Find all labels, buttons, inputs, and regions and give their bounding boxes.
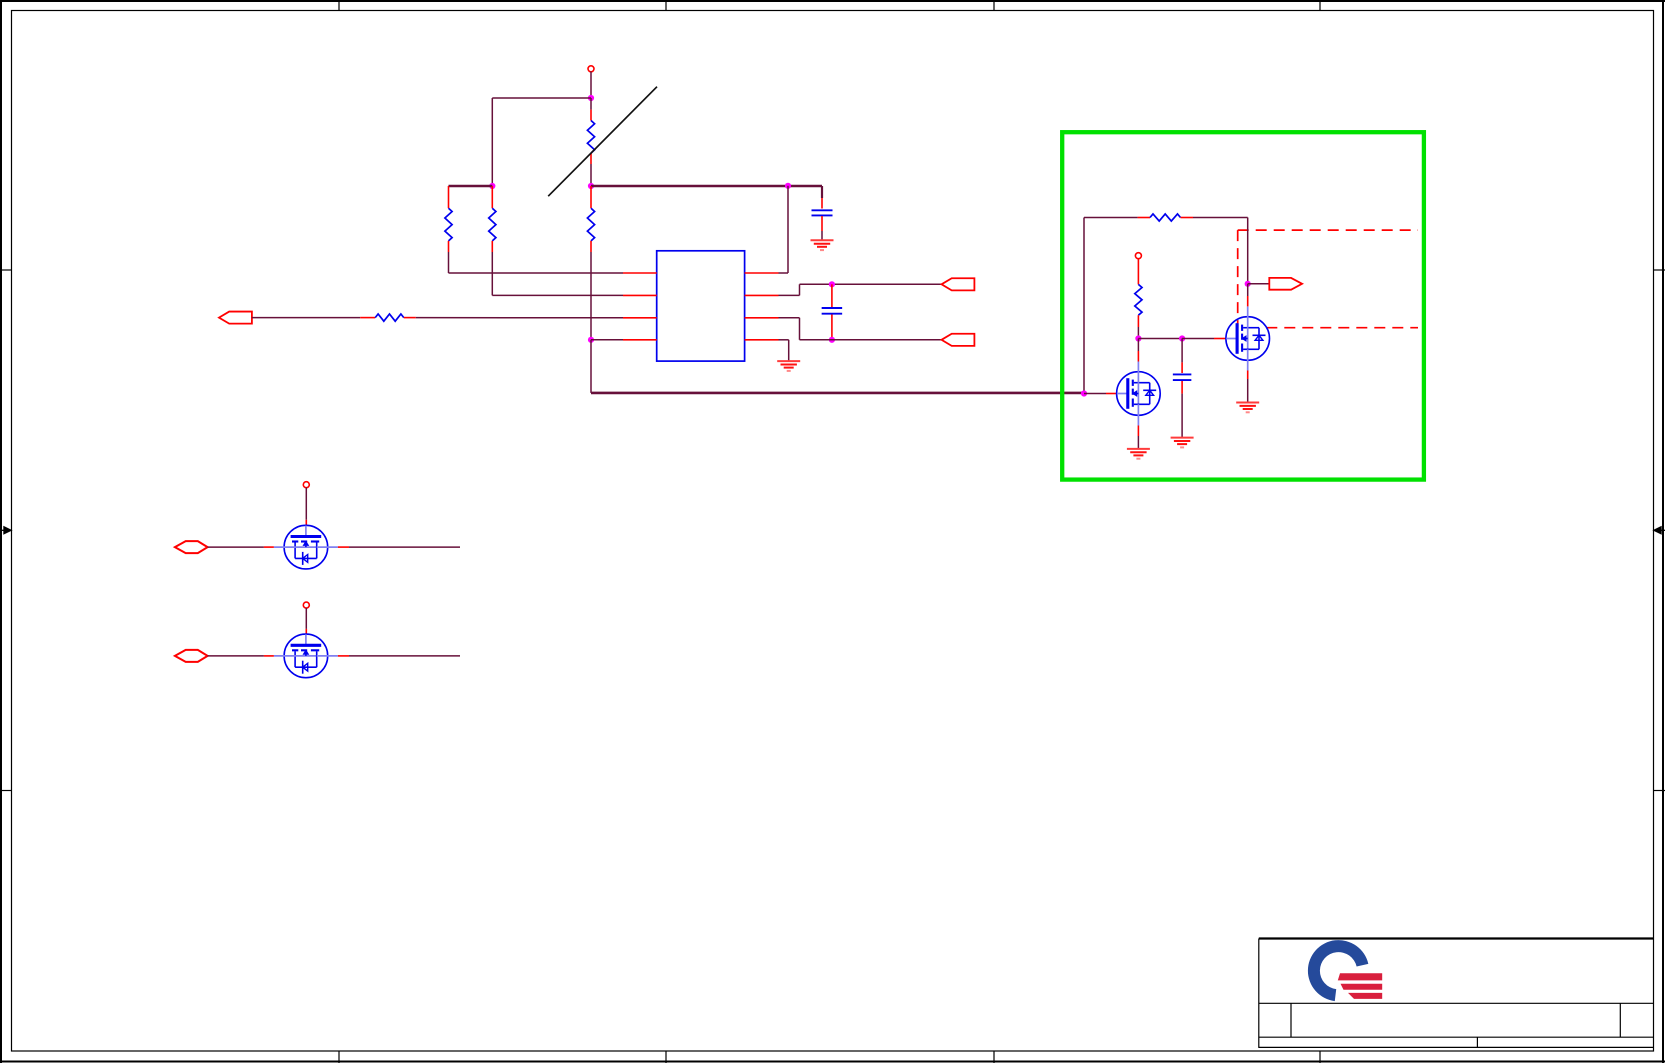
wire	[1193, 217, 1248, 219]
U1 pin 3 left	[623, 317, 657, 319]
wire	[821, 186, 823, 198]
port P3 (output, right of U1)	[942, 334, 975, 346]
U1 pin 1 left	[623, 272, 657, 274]
wire	[590, 252, 592, 340]
wire	[1181, 394, 1183, 438]
thermistor RT1 diagonal stroke	[548, 87, 657, 197]
wire	[208, 546, 264, 548]
U1 pin 6 right	[745, 317, 779, 319]
resistor R7	[1137, 259, 1139, 285]
wire	[779, 339, 789, 341]
wire	[1182, 338, 1214, 340]
wire	[1083, 218, 1085, 394]
U1 pin 8 right	[745, 272, 779, 274]
junction D	[588, 337, 594, 343]
ground	[1171, 437, 1194, 439]
ground	[1236, 402, 1259, 404]
wire	[787, 186, 789, 273]
port P2 (output, right of U1)	[942, 278, 975, 290]
wire	[305, 487, 307, 519]
transistor Q2 (NMOS)	[1226, 307, 1270, 371]
junction A	[588, 95, 594, 101]
junction J	[1135, 335, 1141, 341]
wire	[1247, 218, 1249, 284]
port P5 (bidirectional hexagon)	[175, 541, 208, 553]
wire Q2 source to ground	[1247, 371, 1249, 380]
wire	[448, 252, 450, 273]
wire	[338, 546, 349, 548]
highlight box (green)	[1062, 132, 1424, 479]
wire	[779, 294, 800, 296]
junction I	[1245, 281, 1251, 287]
junction G	[829, 337, 835, 343]
capacitor C2	[1181, 339, 1183, 363]
wire	[1248, 283, 1270, 285]
dashed annotation line vertical	[1237, 230, 1239, 328]
resistor R6	[1138, 217, 1150, 219]
wire	[448, 186, 450, 208]
wire Q1 source to ground	[1137, 426, 1139, 437]
resistor R3	[360, 317, 375, 319]
ground	[1127, 448, 1150, 450]
wire Q1 gate	[1084, 393, 1106, 395]
U1 pin 5 right	[745, 339, 779, 341]
capacitor C1	[821, 198, 823, 209]
junction K	[1179, 335, 1185, 341]
port P1 (input, left)	[219, 312, 252, 324]
ground	[811, 239, 834, 241]
transistor Q3 (NMOS, gate up)	[274, 525, 338, 569]
wire	[264, 655, 274, 657]
wire	[779, 317, 800, 319]
wire (bold)	[591, 185, 822, 188]
wire	[208, 655, 264, 657]
bus wire (bold) to gate of Q1	[590, 340, 592, 393]
wire	[264, 546, 274, 548]
wire Q1 drain	[1137, 339, 1139, 352]
ground	[777, 360, 800, 362]
wire	[1137, 327, 1139, 339]
junction B	[489, 183, 495, 189]
wire	[449, 185, 493, 188]
wire	[349, 655, 460, 657]
wire	[252, 317, 360, 319]
port P4 (output, points right)	[1269, 278, 1302, 290]
wire	[491, 98, 493, 186]
resistor R2	[491, 186, 493, 208]
IC U1	[657, 251, 745, 361]
wire	[821, 231, 823, 240]
power node VCC2	[1135, 253, 1141, 259]
junction E	[785, 183, 791, 189]
wire	[349, 546, 460, 548]
wire	[591, 339, 623, 341]
resistor R1	[445, 208, 452, 241]
wire	[1084, 217, 1138, 219]
junction H	[1081, 390, 1087, 396]
wire	[338, 655, 349, 657]
power node VCC4	[303, 602, 309, 608]
U1 pin 7 right	[745, 294, 779, 296]
junction F	[829, 281, 835, 287]
junction C	[588, 183, 594, 189]
port P6 (bidirectional hexagon)	[175, 650, 208, 662]
wire	[416, 317, 623, 319]
transistor Q1 (NMOS)	[1117, 362, 1161, 426]
U1 pin 2 left	[623, 294, 657, 296]
power node VCC3	[303, 482, 309, 488]
power node VCC1	[588, 66, 594, 72]
thermistor RT1	[590, 98, 592, 110]
dashed annotation line top	[1238, 229, 1418, 231]
dashed annotation line bottom	[1266, 327, 1418, 329]
wire	[1138, 338, 1182, 340]
resistor R4	[590, 186, 592, 208]
wire	[305, 608, 307, 629]
wire	[492, 97, 591, 99]
capacitor C3	[831, 284, 833, 307]
U1 pin 4 left	[623, 339, 657, 341]
wire Q2 drain	[1247, 284, 1249, 296]
wire	[491, 252, 493, 295]
transistor Q4 (NMOS, gate up)	[274, 634, 338, 678]
wire	[590, 72, 592, 99]
